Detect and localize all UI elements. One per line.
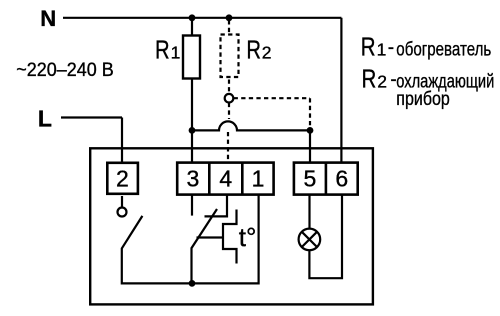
svg-text:R: R bbox=[155, 34, 170, 64]
wire R1 column bbox=[191, 18, 193, 131]
wire L drop to terminal 2 bbox=[121, 118, 123, 163]
svg-text:1: 1 bbox=[252, 166, 265, 192]
wire terminal 3 stub bbox=[191, 195, 193, 216]
node junction bus bbox=[189, 280, 196, 287]
wire cross with hop bbox=[192, 121, 310, 130]
svg-text:5: 5 bbox=[304, 166, 317, 192]
svg-text:R: R bbox=[246, 34, 261, 64]
wire to terminal 5 bbox=[309, 130, 311, 162]
svg-text:прибор: прибор bbox=[396, 88, 450, 110]
wire terminal 5 to lamp bbox=[308, 195, 310, 229]
terminal block 3-4-1 bbox=[177, 163, 273, 195]
resistor R2 (dashed) bbox=[221, 20, 311, 162]
svg-text:обогреватель: обогреватель bbox=[396, 39, 491, 61]
svg-text:R: R bbox=[361, 32, 376, 62]
node junction cross-5 bbox=[307, 127, 314, 134]
svg-text:~220–240 В: ~220–240 В bbox=[16, 59, 114, 81]
svg-text:-: - bbox=[388, 38, 394, 59]
resistor R1 bbox=[183, 36, 200, 79]
wire terminal 2 to contact bbox=[121, 196, 123, 207]
svg-text:3: 3 bbox=[187, 166, 200, 192]
wire N drop to terminal 6 bbox=[340, 18, 342, 163]
lamp HL1 bbox=[299, 229, 321, 251]
node junction N-R2 bbox=[226, 14, 233, 21]
thermostat body box bbox=[90, 148, 373, 304]
thermal actuator stairs bbox=[223, 210, 237, 264]
svg-text:R: R bbox=[362, 64, 377, 94]
node junction N-R1 bbox=[189, 14, 196, 21]
svg-text:t°: t° bbox=[239, 222, 257, 252]
svg-text:2: 2 bbox=[116, 166, 129, 192]
wire L horizontal bbox=[61, 116, 122, 118]
svg-text:N: N bbox=[40, 6, 56, 31]
svg-text:2: 2 bbox=[377, 72, 387, 92]
svg-text:2: 2 bbox=[262, 42, 272, 62]
wire terminal 4 contact bbox=[205, 195, 228, 216]
svg-text:1: 1 bbox=[377, 40, 387, 60]
switch S1 blade and bottom bus bbox=[122, 195, 259, 283]
switch S2 blade bbox=[192, 209, 218, 283]
wire R1 column to terminal 3 bbox=[191, 130, 193, 162]
wire lamp to terminal 6 bbox=[309, 195, 342, 278]
terminal block 5-6 bbox=[294, 163, 358, 195]
svg-text:4: 4 bbox=[219, 166, 232, 192]
svg-text:1: 1 bbox=[171, 42, 181, 62]
wire N horizontal bbox=[63, 17, 341, 19]
node junction R1-cross bbox=[189, 127, 196, 134]
svg-text:6: 6 bbox=[335, 166, 348, 192]
svg-text:L: L bbox=[38, 105, 52, 131]
terminal 2 bbox=[107, 163, 138, 194]
switch S1 contact circle bbox=[118, 208, 127, 217]
link blade to actuator bbox=[197, 236, 224, 238]
node R2 output circle bbox=[225, 94, 234, 103]
